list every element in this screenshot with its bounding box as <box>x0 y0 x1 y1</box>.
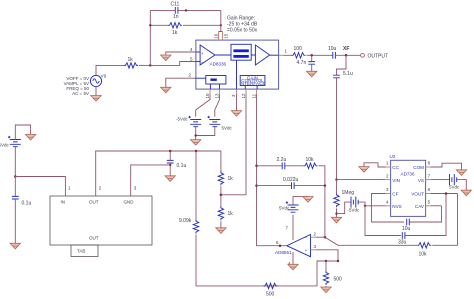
wire divider middle <box>220 186 222 206</box>
wire VS to 5Vdc battery <box>431 179 450 181</box>
svg-text:10k: 10k <box>306 157 315 163</box>
voltage source V9 <box>90 74 106 87</box>
output terminal <box>361 53 365 57</box>
svg-text:AD736: AD736 <box>401 172 415 177</box>
pin3 stub <box>311 249 316 251</box>
junction left node <box>14 175 16 178</box>
ground at pin2 <box>161 87 171 93</box>
svg-text:−: − <box>305 236 308 241</box>
gain range note <box>227 16 258 34</box>
wire NVS loop right to VOUT <box>405 194 446 236</box>
junction 9.09k rail <box>195 150 198 153</box>
svg-text:VIN: VIN <box>392 178 400 183</box>
wire 10k to AD8551 pin2 <box>325 237 417 245</box>
capacitor 0.1u (out) <box>167 160 174 163</box>
svg-text:500: 500 <box>334 277 343 283</box>
ground at CC <box>359 167 369 173</box>
svg-text:2.2u: 2.2u <box>277 157 287 163</box>
wire V9 bottom <box>95 87 97 96</box>
wire 9.09k to bottom rail <box>195 235 197 286</box>
wire node A to pin5 <box>150 62 196 66</box>
wire COM to ground <box>431 163 462 170</box>
wire VIN node down to 1Meg <box>336 180 338 194</box>
wire pin11 rail to op-amp output <box>257 95 287 246</box>
svg-text:13: 13 <box>214 93 219 99</box>
svg-text:0.1u: 0.1u <box>22 201 32 207</box>
junction NVS corner <box>364 205 366 207</box>
resistor 10k feedback <box>417 243 431 248</box>
wire pin2 to ground <box>166 78 196 87</box>
vcom block <box>206 76 226 85</box>
junction line1 takeoff <box>255 165 258 168</box>
wire CF loop left <box>372 194 405 223</box>
pin 10 stub <box>209 89 211 94</box>
AD8336 input amp triangle <box>200 45 215 65</box>
pin3 CF stub <box>386 193 391 195</box>
svg-text:IN: IN <box>61 200 66 205</box>
pin 11 stub <box>256 89 258 94</box>
junction XF node <box>345 54 348 57</box>
pin2 stub <box>311 236 316 238</box>
wire 9.09k rail <box>195 151 197 220</box>
svg-text:AD8336: AD8336 <box>210 62 227 67</box>
wire -5Vdc battery right lead to NVS <box>358 202 365 206</box>
wire regulator OUT up <box>96 151 221 196</box>
svg-text:1k: 1k <box>228 211 234 217</box>
wire pin10 to -5Vdc battery <box>196 95 210 117</box>
svg-text:OUTPUT: OUTPUT <box>368 54 389 60</box>
resistor 9.09k <box>193 220 198 234</box>
svg-text:-5Vdc: -5Vdc <box>176 117 189 122</box>
ground batteries <box>191 140 201 146</box>
svg-text:+: + <box>201 51 204 56</box>
svg-text:=0.05x to 50x: =0.05x to 50x <box>227 28 258 34</box>
wire amp1 to attenuator <box>215 54 231 56</box>
resistor 500 vertical <box>323 271 328 285</box>
junction VIN node <box>335 178 338 181</box>
wire 5Vdc battery to common <box>196 127 215 136</box>
pin8 COM stub <box>426 166 431 168</box>
TAB box <box>71 245 98 257</box>
svg-text:TAB: TAB <box>77 249 85 254</box>
ground below 500 <box>321 287 331 293</box>
wire pin2 to junction <box>316 236 325 238</box>
wire junction to 4.7n <box>311 55 313 61</box>
ground bottom left <box>10 243 20 249</box>
wire 5Vdc to ground <box>457 180 467 191</box>
ground top left <box>25 134 35 140</box>
svg-text:INTERFACE: INTERFACE <box>240 81 266 86</box>
wire R100 to 10u cap <box>307 54 333 56</box>
wire node to 0.1u <box>14 177 16 197</box>
ground at V- <box>288 264 298 270</box>
ground below divider <box>216 228 226 234</box>
ground below 1Meg <box>331 217 341 223</box>
resistor 1k lower <box>218 206 223 220</box>
resistor 10k (line1) <box>304 163 318 168</box>
pin1 CC stub <box>386 166 391 168</box>
resistor 500 series <box>264 283 278 288</box>
wire VOUT feedback down <box>432 194 457 246</box>
svg-text:XF: XF <box>343 46 349 52</box>
junction divider node <box>220 194 223 197</box>
svg-text:1Meg: 1Meg <box>342 190 355 196</box>
svg-text:-5Vdc: -5Vdc <box>348 208 361 213</box>
svg-text:500: 500 <box>266 292 275 298</box>
wire divider top <box>220 151 222 171</box>
pin2 VIN stub <box>386 179 391 181</box>
IC U2 AD736 body <box>391 160 426 216</box>
svg-text:NVS: NVS <box>392 204 401 209</box>
svg-text:V9: V9 <box>101 74 107 79</box>
pin4 NVS stub <box>386 205 391 207</box>
svg-text:C11: C11 <box>171 2 180 8</box>
wire attenuator to amp2 <box>251 54 255 56</box>
wire -5Vdc battery to ground <box>195 127 197 140</box>
svg-text:5Vdc: 5Vdc <box>449 185 460 190</box>
wire battery top to ground <box>293 197 308 205</box>
wire feedback left rail <box>149 10 151 65</box>
svg-text:0.1u: 0.1u <box>177 163 187 169</box>
wire 0.1u to ground <box>14 199 16 243</box>
capacitor 10u series <box>333 52 336 59</box>
capacitor C11 <box>175 7 178 14</box>
capacitor 0.1u (left) <box>12 196 19 199</box>
svg-text:16: 16 <box>214 33 219 39</box>
op-amp U3 AD8551 <box>287 235 311 257</box>
pin 3 stub <box>236 89 238 94</box>
wire V- to ground <box>292 252 294 264</box>
junction after C11 <box>185 9 187 11</box>
V9 parameter text <box>64 76 90 96</box>
node A junction <box>149 64 152 67</box>
svg-text:100: 100 <box>294 46 303 52</box>
wire node to regulator IN <box>15 177 65 197</box>
ground at pin4 <box>161 55 171 61</box>
svg-text:GND: GND <box>124 200 135 205</box>
resistor R input 1k <box>124 63 138 68</box>
wire -5Vdc battery left lead <box>337 202 352 214</box>
wire feedback 1k branch <box>150 24 221 26</box>
pin5 CAV stub <box>426 205 431 207</box>
junction line2 takeoff <box>255 184 258 187</box>
wire regulator GND pin <box>131 165 171 196</box>
ground below 0.1u <box>165 176 175 182</box>
wire pin13 to 5Vdc battery <box>215 95 220 117</box>
battery 5Vdc (left supply) <box>8 136 21 147</box>
wire feedback right rail to pin15 <box>219 10 223 31</box>
svg-text:5Vdc: 5Vdc <box>222 126 233 131</box>
svg-text:1k: 1k <box>228 176 234 182</box>
gain block bottom leads <box>245 86 257 90</box>
svg-text:1k: 1k <box>172 30 178 36</box>
svg-text:AC = 5V: AC = 5V <box>72 91 89 96</box>
battery -5Vdc (AD736) <box>351 197 358 208</box>
battery -5Vdc <box>188 116 201 127</box>
capacitor 33u <box>402 232 405 239</box>
junction GND tie <box>169 164 171 166</box>
op-amp U1 AD8336 body <box>196 40 279 89</box>
wire XF node down to 5.1u <box>337 55 347 75</box>
svg-text:15: 15 <box>223 33 228 39</box>
wire 500 branch down <box>325 261 327 271</box>
pin7 VS stub <box>426 179 431 181</box>
wire divider bottom <box>220 221 222 228</box>
wire VIN node to AD736 pin2 <box>337 179 386 181</box>
capacitor 4.7n <box>308 62 315 65</box>
wire V9 top to input <box>96 65 124 75</box>
junction -5Vdc tap <box>335 212 337 214</box>
pin 12 stub <box>245 89 247 94</box>
junction VOUT <box>445 192 448 195</box>
AD8336 output amp triangle <box>255 45 269 65</box>
svg-text:CC: CC <box>392 165 399 170</box>
junction op-amp output <box>279 244 282 247</box>
wire 500 to ground <box>325 286 327 287</box>
svg-text:12: 12 <box>241 93 246 99</box>
wire NVS loop left <box>365 206 401 236</box>
svg-text:COM: COM <box>413 165 424 170</box>
wire battery top to ground <box>15 125 30 140</box>
wire pin2 to vcom block <box>196 77 206 79</box>
svg-text:CAV: CAV <box>415 204 425 209</box>
capacitor 10u (CF) <box>407 219 410 226</box>
pin1 output stub <box>279 54 284 56</box>
capacitor 2.2u <box>282 162 285 169</box>
wire battery bottom to node <box>14 147 16 177</box>
ground at 5Vdc top <box>303 197 313 203</box>
pin 16 stub <box>218 32 220 41</box>
ground below 4.7n <box>307 71 317 77</box>
wire resistor to node A <box>139 64 150 66</box>
wire C11 top branch <box>150 9 221 11</box>
wire 1Meg to ground <box>336 208 338 217</box>
svg-text:OUT: OUT <box>89 236 99 241</box>
pin6 VOUT stub <box>426 193 431 195</box>
junction feedback right <box>220 24 222 26</box>
attenuator block <box>231 44 251 60</box>
svg-text:0.022u: 0.022u <box>283 177 299 183</box>
svg-text:U2: U2 <box>390 154 396 159</box>
ground at VS <box>461 190 471 196</box>
wire 5.1u down to VIN node <box>336 78 338 180</box>
svg-text:5Vdc: 5Vdc <box>0 143 10 148</box>
wire CC to ground <box>364 163 386 167</box>
svg-text:VS: VS <box>418 178 424 183</box>
input stub pin4 inside <box>196 51 200 53</box>
wire V+ from battery <box>292 215 294 240</box>
wire VOUT to junction <box>431 193 458 195</box>
wire pin3 network <box>196 250 338 286</box>
ground at pin3 <box>231 111 241 117</box>
junction pin3 corner <box>337 260 339 262</box>
wire 10u to output terminal <box>335 54 360 56</box>
resistor 100 <box>292 53 306 58</box>
wire pin3 to ground <box>236 95 238 111</box>
junction 500 branch <box>325 260 327 262</box>
junction 4.7n <box>310 54 313 57</box>
svg-text:−: − <box>201 60 204 65</box>
svg-text:+: + <box>305 248 308 253</box>
attenuator bottom lead <box>236 60 238 89</box>
svg-text:AD8551: AD8551 <box>275 250 292 255</box>
ground below V9 <box>91 96 101 102</box>
wire pin4 to ground <box>166 52 196 55</box>
svg-text:33u: 33u <box>398 240 407 246</box>
junction line2 right <box>324 184 327 187</box>
wire CAV to loop <box>431 205 442 207</box>
resistor 1Meg <box>334 193 339 207</box>
svg-text:10u: 10u <box>328 46 337 52</box>
svg-text:1k: 1k <box>128 57 134 63</box>
vcom bottom leads <box>210 84 219 89</box>
wire feedback line1 <box>257 166 325 186</box>
input stub pin5 inside <box>196 61 200 63</box>
svg-text:VOUT: VOUT <box>411 192 424 197</box>
capacitor 0.022u <box>292 182 295 189</box>
svg-text:OUT: OUT <box>89 200 99 205</box>
svg-text:4.7n: 4.7n <box>297 60 307 66</box>
battery 5Vdc (op-amp) <box>286 201 299 212</box>
resistor 1k upper <box>218 171 223 185</box>
wire feedback line2 <box>257 185 325 187</box>
wire amp2 to pin1 <box>270 54 279 56</box>
svg-text:5.1u: 5.1u <box>343 71 353 77</box>
battery 5Vdc (AD736) <box>450 174 457 185</box>
wire pin12 rail to divider <box>221 95 246 195</box>
svg-text:11: 11 <box>251 93 256 98</box>
wire 4.7n to ground <box>311 64 313 71</box>
pin 15 stub <box>222 32 224 41</box>
wire pin1 to R 100 <box>284 54 292 56</box>
pin 13 stub <box>219 89 221 94</box>
svg-text:10k: 10k <box>419 252 428 258</box>
wire fb rail down to pin2 <box>324 186 326 238</box>
junction AD8551 pin2 <box>324 236 327 239</box>
gain control interface block <box>240 75 266 86</box>
wire CF loop right to CAV <box>409 206 441 222</box>
regulator U4 body <box>50 196 152 245</box>
wire 0.1u bottom to ground <box>169 163 171 176</box>
svg-text:10: 10 <box>205 93 210 99</box>
svg-text:CF: CF <box>392 192 398 197</box>
capacitor 5.1u <box>333 75 340 78</box>
svg-text:1n: 1n <box>173 14 179 20</box>
svg-text:10u: 10u <box>402 226 411 232</box>
junction 0.1u top <box>169 150 172 153</box>
resistor feedback 1k <box>168 23 182 28</box>
junction feedback left <box>149 24 151 26</box>
battery 5Vdc <box>208 116 221 127</box>
svg-text:5Vdc: 5Vdc <box>279 206 290 211</box>
svg-text:9.09k: 9.09k <box>179 218 192 224</box>
wire 0.1u top lead <box>169 151 171 160</box>
ground at COM <box>456 170 466 176</box>
junction batteries common <box>195 134 197 136</box>
